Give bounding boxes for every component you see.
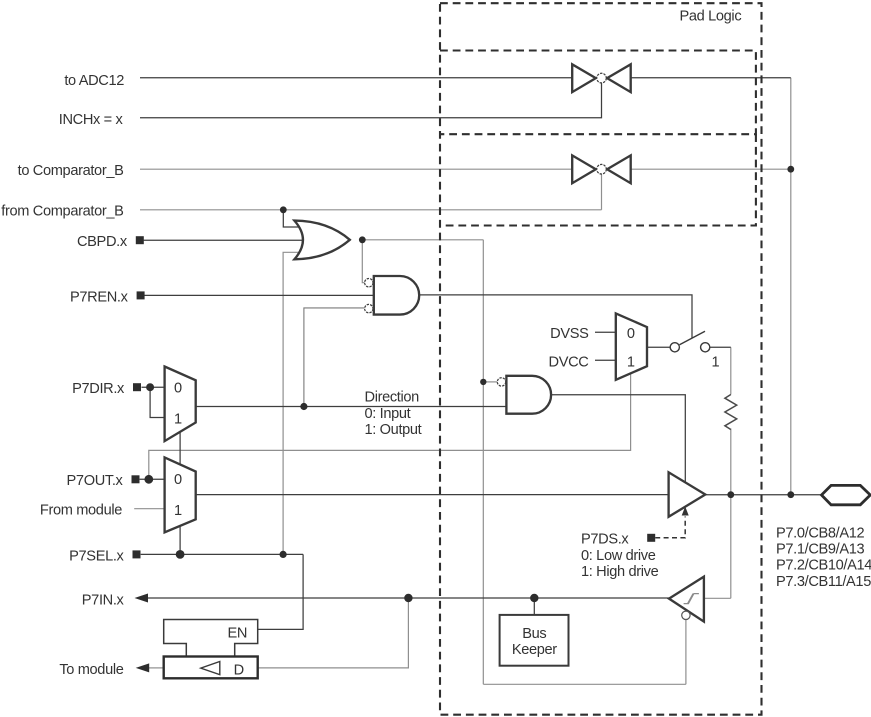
terminal square P7OUT.x [132,475,140,483]
wire: Direction line [196,406,507,408]
wire: dot to dir-NAND bubble stub [483,381,497,383]
wire: DVSS/DVCC mux output to switch [647,346,670,348]
wire: CBPD.x to OR input [144,239,305,241]
switch S1 circle left [670,343,679,352]
inner dashed box: ADC switch [440,51,756,135]
junction dot: P7IN to D latch [404,594,412,602]
svg-text:P7REN.x: P7REN.x [70,289,129,305]
svg-text:INCHx = x: INCHx = x [59,112,124,128]
pad hexagon [822,485,871,504]
junction dot: P7DIR [146,383,154,391]
analog switch T2 (to Comparator_B) left triangle [572,155,596,183]
wire: from Comparator_B riser to switch T2 control [601,174,603,210]
mux M3 (DVSS/DVCC) [616,313,647,379]
resistor R (pullup/pulldown) [725,395,737,430]
svg-text:From module: From module [40,503,122,519]
Schmitt enable bubble [682,611,690,619]
wire: from Comparator_B horizontal [140,209,602,211]
latch EN box [164,620,258,657]
wire: OR output down to REN-NAND top bubble [362,240,364,283]
wire: pad column down to Schmitt input [730,495,732,599]
svg-text:P7.1/CB9/A13: P7.1/CB9/A13 [776,542,865,558]
wire: OR output extension to x=483 [362,239,483,241]
arrow To module [136,663,150,672]
wire: Bus Keeper stub [533,598,535,615]
wire: P7SEL.x horizontal [141,553,303,555]
Pad Logic outer dashed box [440,3,762,715]
junction dot: P7IN to Bus Keeper [530,594,538,602]
latch D box [164,657,258,679]
analog switch T1 control circle [597,73,607,83]
wire: To module line from D box [149,667,164,669]
svg-text:1: High drive: 1: High drive [581,564,659,580]
wire: P7DIR.x to mux input 0 [142,386,165,388]
svg-text:P7SEL.x: P7SEL.x [69,549,124,565]
latch clock triangle [201,662,220,675]
P7DS.x square terminal [647,534,655,542]
junction dot: Direction line [300,403,307,410]
wire: DVCC stub [595,359,616,361]
junction dot: from Comparator_B [280,206,287,213]
wire: P7DIR.x stub to mux input 1 [150,387,165,417]
terminal square P7DIR.x [133,383,141,391]
junction dot: P7SEL select [176,550,185,559]
wire: Schmitt bubble riser [685,620,687,685]
wire: From module input [134,508,164,510]
svg-text:D: D [234,663,244,679]
wire: right vertical net x=790.8 (ADC line down to pad) [790,78,792,495]
terminal square P7REN.x [137,291,145,299]
svg-text:P7.3/CB11/A15: P7.3/CB11/A15 [776,574,871,590]
svg-text:to ADC12: to ADC12 [64,73,124,89]
junction dot: pad line inner [727,491,734,498]
NAND U1 (P7REN gate, 3-input) body [374,276,419,315]
junction dot: P7OUT [144,475,153,484]
NAND U2 (direction gate) body [506,376,551,414]
wire: P7IN line [148,597,670,599]
svg-text:P7DS.x: P7DS.x [581,532,629,548]
svg-text:0: 0 [627,326,635,342]
svg-text:0: 0 [174,381,182,397]
svg-text:1: Output: 1: Output [365,422,422,438]
terminal square P7SEL.x [133,550,141,558]
mux M1 (P7DIR) [165,367,196,442]
svg-text:1: 1 [712,354,720,370]
wire: from Comparator_B stub down to OR top input [283,210,302,227]
wire: OUT mux output to driver [196,494,669,496]
wire: resistor top column [730,347,732,394]
wire: D flip-flop data from P7IN junction [258,598,409,668]
Schmitt trigger input buffer [669,577,704,622]
switch S1 blade [680,331,706,345]
switch S1 circle right [701,343,710,352]
svg-text:P7IN.x: P7IN.x [82,593,125,609]
svg-text:1: 1 [174,503,182,519]
Bus Keeper box [500,615,569,666]
wire: to Comparator_B horizontal [140,168,791,170]
svg-text:Pad Logic: Pad Logic [680,9,742,25]
analog switch T1 (to ADC12) left triangle [572,64,596,92]
svg-text:DVCC: DVCC [549,355,589,371]
P7DS arrowhead [682,507,689,516]
wire: dir-NAND output to driver enable [551,395,685,483]
output driver buffer [669,472,706,517]
svg-text:DVSS: DVSS [550,326,589,342]
svg-text:1: 1 [627,354,635,370]
junction dot: OR output [359,236,366,243]
wire: mux select vertical P7SEL to DIR/OUT muxes [179,432,181,555]
Schmitt hysteresis symbol [684,594,699,604]
wire: DVSS stub [595,331,616,333]
wire: input-enable horizontal to Schmitt bubble [483,683,686,685]
wire: P7OUT riser to DVSS/DVCC mux select [149,373,631,479]
analog switch T1 right triangle [607,64,631,92]
svg-text:P7.2/CB10/A14: P7.2/CB10/A14 [776,558,871,574]
svg-text:P7OUT.x: P7OUT.x [67,473,124,489]
svg-text:To module: To module [59,662,123,678]
arrow P7IN.x [135,594,149,603]
junction dot: dir-NAND bubble input [480,379,486,385]
wire: Schmitt input horizontal [704,597,731,599]
wire: vertical x=483 (OR out down to input-enable) [482,240,484,685]
junction dot: P7SEL to OR riser [280,551,287,558]
inner dashed box: Comparator switch [440,134,756,225]
NAND U2 input bubble [497,378,505,386]
wire: P7OUT.x to mux input 0 [140,478,165,480]
svg-text:P7DIR.x: P7DIR.x [72,381,125,397]
svg-text:CBPD.x: CBPD.x [77,234,128,250]
wire: P7REN.x to NAND [144,294,376,296]
NAND U1 bottom input bubble [365,304,373,312]
analog switch T2 right triangle [607,155,631,183]
svg-text:Keeper: Keeper [512,642,557,658]
wire: to ADC12 horizontal [140,77,791,79]
svg-text:1: 1 [174,411,182,427]
svg-text:0: Low drive: 0: Low drive [581,548,656,564]
wire: driver output to pad [705,494,821,496]
svg-text:from Comparator_B: from Comparator_B [1,204,123,220]
svg-text:0: 0 [174,472,182,488]
svg-text:P7.0/CB8/A12: P7.0/CB8/A12 [776,526,865,542]
mux M2 (P7OUT) [165,457,196,532]
OR gate (CBPD / from Comparator_B / P7SEL) [294,221,349,260]
analog switch T2 control circle [597,164,607,174]
wire: REN NAND output to switch blade [419,295,692,338]
junction dot: comparator line right [787,166,794,173]
wire: P7SEL riser to OR third input [283,252,302,554]
svg-text:Bus: Bus [522,626,546,642]
NAND U1 top input bubble [365,279,373,287]
P7DS dashed arrow [655,517,685,538]
svg-text:to Comparator_B: to Comparator_B [18,163,124,179]
junction dot: pad line outer [787,491,794,498]
wire: resistor bottom column to pad line [730,429,732,495]
wire: switch to resistor corner [710,346,731,348]
wire: Direction to dir-NAND lower bubble [304,308,364,407]
svg-text:0: Input: 0: Input [365,406,411,422]
wire: P7SEL down to EN input [258,554,303,629]
svg-text:Direction: Direction [365,390,420,406]
svg-text:EN: EN [228,626,248,642]
wire: INCHx control line and riser to switch T1 [140,83,602,118]
terminal square CBPD.x [136,236,144,244]
